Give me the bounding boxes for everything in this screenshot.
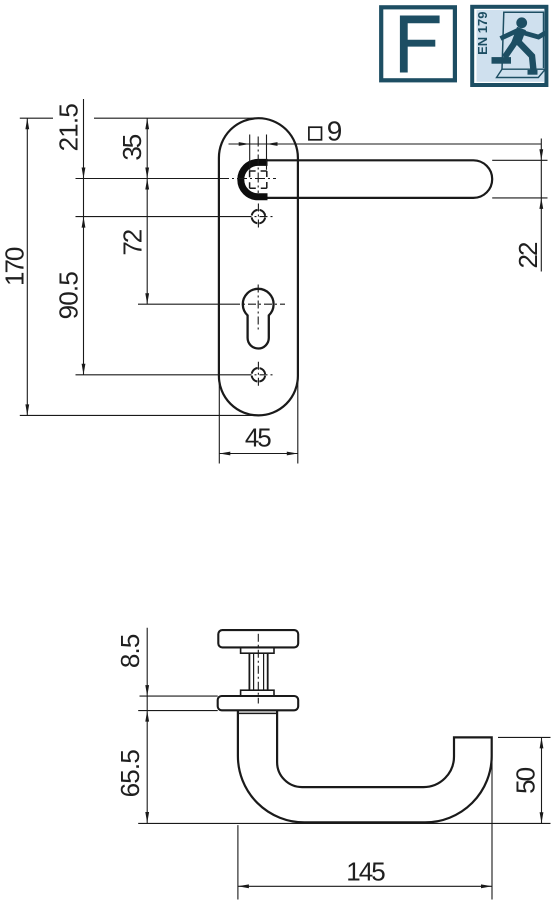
side view neck shoulder line: [238, 712, 277, 714]
svg-text:9: 9: [327, 116, 342, 147]
svg-text:145: 145: [346, 857, 385, 887]
hub horizontal centerline: [219, 178, 276, 180]
dimension 50 arrows: [540, 737, 544, 823]
dimension 8.5 arrows: [145, 685, 149, 722]
extension line plate top: [20, 117, 257, 119]
logo EN179 man rear arm: [501, 31, 518, 39]
extension line screw2 level: [76, 374, 244, 376]
dimension 21.5 arrows: [82, 168, 86, 228]
dimension 145 arrows: [238, 884, 492, 888]
svg-text:90.5: 90.5: [54, 272, 84, 320]
plate outline: [219, 118, 298, 415]
hub bold end cap: [241, 162, 268, 196]
logo EN179 man front foot: [528, 70, 538, 75]
dimension 50 line: [541, 737, 543, 823]
screw hole bottom crosshair: [244, 362, 275, 389]
extension line grip bottom: [138, 822, 550, 824]
logo EN179 man torso: [516, 29, 522, 45]
svg-text:50: 50: [511, 767, 541, 793]
dimension 8.5 extension lines: [138, 696, 218, 711]
side view lower collar: [241, 690, 274, 696]
side view spindle shaft: [249, 654, 267, 691]
dimension 22 arrows: [539, 149, 543, 209]
dimension 45 line: [219, 453, 297, 455]
dimension 8.5 and 65.5 line: [146, 628, 148, 823]
logo EN179 man rear leg: [505, 42, 516, 58]
svg-text:35: 35: [117, 134, 147, 160]
dimension 50 extension line top: [498, 736, 551, 738]
screw hole top: [252, 210, 266, 224]
side view grip outline: [238, 710, 492, 822]
logo F letter: [400, 16, 440, 73]
screw hole top crosshair: [244, 204, 275, 231]
dimension 22 line: [540, 139, 542, 272]
dimension 145 line: [238, 885, 492, 887]
svg-text:EN 179: EN 179: [475, 12, 490, 55]
logo EN179 blue field: [477, 10, 545, 82]
svg-text:22: 22: [513, 242, 543, 268]
side view upper collar: [241, 647, 274, 653]
dimension 45 arrows: [219, 452, 297, 456]
dimension 21.5 and 90.5 line: [83, 99, 85, 375]
dimension 35 arrows: [145, 118, 149, 178]
svg-text:170: 170: [0, 247, 30, 286]
dimension 65.5 arrow bottom: [145, 812, 149, 823]
lever outline: [258, 160, 492, 198]
logo EN179 floor: [497, 69, 546, 77]
svg-text:45: 45: [245, 423, 271, 453]
logo EN179 door frame: [502, 12, 544, 69]
euro cylinder hole: [243, 289, 274, 349]
side view centerline: [257, 634, 259, 704]
square 9 label square: [309, 127, 322, 140]
logo EN179 man head: [516, 17, 527, 28]
svg-text:21.5: 21.5: [54, 104, 84, 152]
logo EN179 box: [472, 7, 546, 85]
extension line cylinder level: [138, 303, 232, 305]
spindle square dashed: [250, 171, 267, 188]
side view plate edge: [218, 696, 299, 710]
svg-text:72: 72: [118, 229, 148, 255]
svg-text:8.5: 8.5: [115, 634, 145, 668]
extension line hub level: [76, 178, 219, 180]
dimension 90.5 arrow bottom: [82, 364, 86, 375]
side view rose disc: [218, 630, 298, 647]
square 9 arrows: [239, 142, 278, 146]
dimension 170 arrows: [25, 118, 29, 415]
dimension 170 line: [26, 118, 28, 415]
square 9 dimension line: [229, 143, 542, 145]
dimension 145 extension lines: [238, 757, 492, 900]
lever end extension lines: [492, 160, 547, 198]
square 9 extension lines: [250, 135, 267, 170]
dimension 45 extension lines: [219, 380, 297, 464]
euro cylinder crosshair: [232, 285, 285, 331]
extension line plate bottom: [20, 414, 258, 416]
hub vertical centerline: [257, 137, 259, 194]
dimension 35 and 72 line: [146, 118, 148, 304]
logo EN179 man front arm: [523, 33, 547, 38]
extension line screw1 level: [76, 216, 244, 218]
logo F box: [381, 7, 455, 80]
logo EN179 man front leg: [519, 42, 534, 71]
side view spindle shaft inner edges: [254, 654, 264, 691]
svg-text:65.5: 65.5: [115, 750, 145, 798]
screw hole bottom: [252, 368, 266, 382]
dimension 72 arrows: [145, 179, 149, 305]
logo EN179 man rear foot: [492, 57, 512, 64]
